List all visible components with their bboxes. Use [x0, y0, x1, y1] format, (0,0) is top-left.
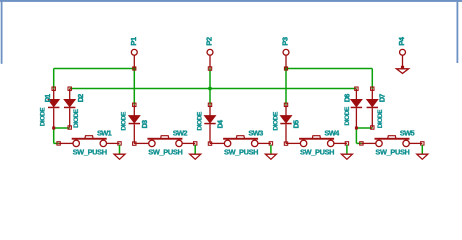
ground at SW5	[417, 145, 428, 160]
svg-text:SW1: SW1	[97, 128, 112, 137]
wire row-A P1 to D1 column	[54, 68, 135, 70]
diode D2	[64, 87, 85, 129]
svg-text:SW3: SW3	[248, 128, 263, 137]
connector pin P2	[205, 37, 214, 70]
svg-text:P4: P4	[397, 36, 406, 45]
wire D1 D2 cathode link	[54, 127, 70, 129]
svg-text:DIODE: DIODE	[73, 108, 80, 127]
diode D6	[342, 87, 362, 130]
svg-text:P3: P3	[281, 37, 290, 45]
svg-text:SW5: SW5	[400, 128, 415, 137]
ground at P4	[396, 66, 408, 74]
junction node P2/row-B	[208, 87, 211, 90]
svg-text:SW_PUSH: SW_PUSH	[148, 148, 182, 157]
diode D1	[39, 87, 59, 130]
wire P2 to D4	[209, 69, 211, 105]
wire row-A P3 to D7 column	[286, 68, 372, 70]
svg-text:DIODE: DIODE	[272, 111, 279, 130]
svg-text:SW_PUSH: SW_PUSH	[375, 148, 409, 157]
switch SW4	[286, 128, 349, 156]
svg-text:D3: D3	[140, 120, 149, 128]
wire D6 D7 cathode link	[356, 127, 372, 129]
connector pin P1	[129, 37, 138, 68]
svg-text:D2: D2	[76, 94, 85, 102]
svg-text:DIODE: DIODE	[121, 111, 128, 130]
ground at SW2	[190, 145, 201, 160]
diode D3	[121, 103, 149, 145]
svg-text:D5: D5	[292, 120, 301, 128]
switch SW3	[210, 128, 273, 156]
ground at SW1	[114, 145, 125, 160]
svg-text:DIODE: DIODE	[377, 109, 384, 128]
junction node P1/row-A	[133, 67, 136, 70]
wire row-B D2 to D6	[70, 88, 357, 90]
svg-text:SW4: SW4	[324, 128, 340, 137]
wire D7 top drop	[371, 69, 373, 89]
switch SW1	[57, 128, 121, 156]
ground at SW4	[341, 145, 352, 160]
wire D6 to SW5	[355, 128, 357, 143]
connector pin P3	[281, 37, 290, 68]
wire P3 to D5	[285, 69, 287, 105]
svg-text:DIODE: DIODE	[344, 106, 351, 125]
svg-text:D7: D7	[378, 94, 387, 102]
switch SW2	[134, 128, 197, 156]
svg-text:P1: P1	[129, 37, 138, 45]
svg-text:SW2: SW2	[173, 128, 188, 137]
svg-text:D1: D1	[43, 94, 52, 102]
svg-text:D4: D4	[216, 120, 225, 128]
svg-text:SW_PUSH: SW_PUSH	[300, 148, 334, 157]
svg-text:SW_PUSH: SW_PUSH	[224, 148, 258, 157]
svg-text:P2: P2	[205, 37, 214, 45]
svg-text:DIODE: DIODE	[196, 111, 203, 130]
ground at SW3	[265, 145, 276, 160]
wire D1 top drop	[53, 69, 55, 89]
wire P1 to D3	[133, 69, 135, 105]
switch SW5	[360, 128, 424, 156]
svg-text:DIODE: DIODE	[39, 107, 46, 126]
wire D1 to SW1	[53, 128, 55, 143]
diode D4	[196, 103, 224, 145]
svg-text:SW_PUSH: SW_PUSH	[73, 148, 107, 157]
diode D5	[272, 103, 300, 145]
junction node P3/row-A	[284, 67, 287, 70]
diode D7	[367, 87, 387, 129]
svg-text:D6: D6	[342, 94, 351, 102]
connector pin P4	[397, 36, 406, 67]
